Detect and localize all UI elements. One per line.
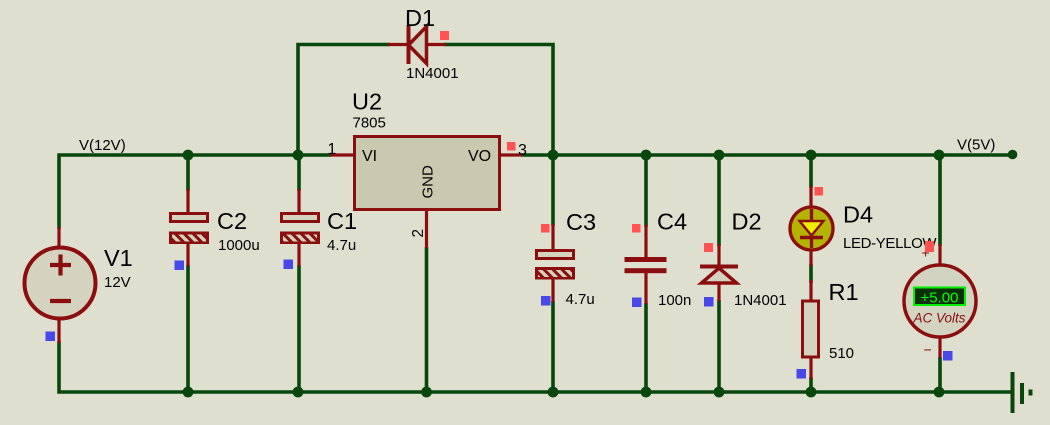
junction: top rail at C1/D1 [293,150,304,161]
marker red U2 pin3 [507,142,516,151]
svg-text:D4: D4 [843,202,873,228]
marker red D4 [815,187,824,196]
junction: bottom rail at R1 [806,387,817,398]
svg-text:1N4001: 1N4001 [406,65,459,82]
voltmeter [904,244,976,358]
marker red C4 [632,224,641,233]
svg-text:4.7u: 4.7u [327,237,356,254]
svg-text:AC Volts: AC Volts [912,311,965,326]
svg-text:510: 510 [829,345,854,362]
junction: bottom rail at C3 [548,387,559,398]
junction: top rail at D4 [806,150,817,161]
svg-text:C4: C4 [657,209,687,235]
svg-text:2: 2 [410,229,427,238]
wire: C2 upper [186,155,190,191]
junction: top rail at D1/C3 [548,150,559,161]
capacitor C4 [625,225,667,304]
marker red D2 [704,243,713,252]
wire: bottom ground rail [59,341,1012,392]
svg-text:3: 3 [518,142,527,159]
diode D2 [700,244,738,301]
svg-text:−: − [924,342,932,358]
marker blue C1 [284,260,294,270]
junction: bottom rail at U2 pin2 [421,387,432,398]
junction: top rail at C4 [641,150,652,161]
wire: U2 pin2 to ground rail [425,247,429,392]
svg-text:12V: 12V [104,274,131,291]
junction: bottom rail at voltmeter [934,387,945,398]
wire: voltmeter upper [938,155,942,246]
svg-text:R1: R1 [829,279,859,305]
marker blue voltmeter [943,351,953,361]
svg-text:C2: C2 [217,208,247,234]
wire: C1 lower [297,265,301,392]
svg-text:D1: D1 [405,5,435,31]
svg-text:D2: D2 [732,209,762,235]
marker red C3 [541,224,550,233]
junction: bottom rail at C2 [183,387,194,398]
svg-text:V(12V): V(12V) [79,137,126,154]
LED D4 [790,186,833,266]
marker blue D2 [704,297,714,307]
svg-text:+5.00: +5.00 [921,290,959,307]
capacitor C2 (polarized) [169,189,209,266]
resistor R1 [803,280,819,379]
junction: bottom rail at D2 [714,387,725,398]
marker blue V1 [46,332,56,342]
marker red voltmeter [925,241,934,252]
svg-text:GND: GND [420,165,437,199]
wire: C3 upper [551,155,555,226]
svg-text:V1: V1 [104,245,133,271]
wire: top 5V rail from U2 pin3 to V(5V) end [521,153,1012,157]
marker red D1 [440,31,449,40]
wire: D2 lower [717,300,721,392]
junction: bottom rail at C4 [641,387,652,398]
wire: voltmeter lower [938,357,942,392]
junction: top rail at C2 [183,150,194,161]
marker blue C4 [632,298,642,308]
svg-text:C1: C1 [327,208,357,234]
wire: C2 lower [186,265,190,392]
junction: bottom rail at C1 [293,387,304,398]
wire: R1 lower [809,377,813,392]
wire: C4 upper [644,155,648,227]
svg-text:1: 1 [328,141,337,158]
wire: C4 lower [644,303,648,392]
svg-text:7805: 7805 [353,115,386,132]
voltage source V1 [25,227,96,343]
svg-text:1N4001: 1N4001 [734,292,787,309]
svg-text:VO: VO [468,148,491,165]
junction: top rail at voltmeter [934,150,945,161]
wire: D4 upper [809,155,813,188]
svg-text:C3: C3 [566,209,596,235]
svg-text:4.7u: 4.7u [566,291,595,308]
svg-text:1000u: 1000u [218,237,260,254]
node V(5V) end dot [1008,150,1018,160]
capacitor C3 (polarized) [535,224,575,302]
marker blue C2 [175,261,185,271]
svg-text:V(5V): V(5V) [957,137,995,154]
wire: C3 lower [551,301,555,392]
wire: D2 upper [717,155,721,246]
marker blue R1 [797,369,807,379]
svg-text:VI: VI [362,148,377,165]
svg-text:U2: U2 [352,89,382,115]
wire: D4 to R1 [809,264,813,283]
wire: C1 upper [297,155,301,191]
marker blue C3 [541,296,551,306]
wire: top 12V rail from V1 to U2 pin1 [59,155,332,229]
ground [1011,372,1033,413]
wire: D1 branch left vertical [298,45,390,156]
diode D1 [388,26,446,65]
regulator U2 7805 [330,137,523,249]
capacitor C1 (polarized) [280,189,320,266]
wire: D1 branch right vertical [444,45,553,156]
junction: top rail at D2 [714,150,725,161]
svg-text:100n: 100n [658,292,691,309]
